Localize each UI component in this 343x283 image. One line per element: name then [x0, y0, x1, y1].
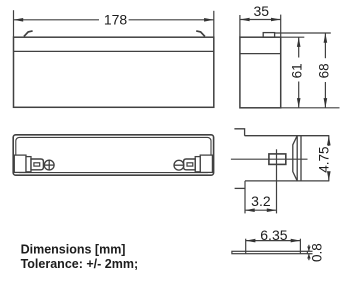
extension line from side body top: [281, 36, 305, 38]
right tab slot: [187, 163, 193, 166]
extension line from side body bottom: [281, 107, 340, 109]
dim 6.35 extension line right: [299, 239, 301, 254]
right terminal housing: [200, 155, 212, 172]
positive symbol cross: [44, 164, 55, 166]
side view lid seam: [240, 53, 281, 55]
terminal detail center axis: [231, 158, 308, 160]
dim 0.8 arrows: [308, 245, 310, 252]
terminal detail bottom-left step: [235, 187, 245, 189]
svg-text:61: 61: [290, 63, 305, 78]
front view right terminal hook: [196, 31, 205, 37]
faston tab front view bar: [232, 251, 308, 253]
terminal detail top-left step: [234, 129, 244, 136]
dim 0.8 extension stubs: [307, 250, 312, 252]
positive terminal circle: [44, 160, 54, 170]
left terminal flange: [26, 157, 31, 172]
battery front view body: [14, 37, 214, 107]
left faston tab: [31, 159, 43, 170]
dim 35 extension line left: [239, 15, 241, 37]
terminal detail lid bottom line: [245, 180, 329, 182]
svg-text:6.35: 6.35: [260, 227, 287, 243]
dim 3.2 dimension line: [245, 209, 277, 211]
svg-text:68: 68: [317, 63, 332, 78]
dim 35 dimension line: [240, 19, 281, 21]
svg-text:35: 35: [254, 3, 270, 19]
svg-text:Dimensions [mm]: Dimensions [mm]: [21, 243, 126, 257]
left terminal housing: [14, 155, 26, 172]
battery top view outer outline: [13, 135, 213, 175]
terminal base chevron: [293, 136, 297, 181]
svg-text:178: 178: [104, 12, 128, 28]
extension line from terminal bump top: [275, 32, 331, 34]
dim 6.35 extension line left: [245, 239, 247, 254]
dim 61 dimension line: [298, 37, 300, 57]
dim 4.75 dimension line: [328, 136, 330, 146]
extension line through hole: [276, 149, 278, 213]
battery top view inner outline: [16, 137, 211, 172]
dim 178 extension line right: [213, 11, 215, 37]
svg-text:3.2: 3.2: [251, 193, 271, 209]
front view left terminal hook: [24, 31, 33, 37]
terminal hole rectangle: [269, 154, 286, 165]
battery front view lid seam: [14, 50, 214, 52]
dim 178 extension line left: [13, 10, 15, 37]
right faston tab: [184, 159, 196, 170]
negative terminal circle: [174, 160, 184, 170]
right terminal flange: [195, 157, 200, 172]
dim 35 extension line right: [280, 15, 282, 38]
faston tab blade edges: [296, 136, 298, 181]
side view terminal bump: [263, 33, 274, 38]
svg-text:4.75: 4.75: [316, 146, 331, 172]
svg-text:0.8: 0.8: [310, 243, 325, 262]
dim 6.35 dimension line: [246, 240, 301, 242]
terminal detail lid top line: [245, 135, 330, 137]
negative symbol minus: [174, 164, 185, 166]
dim 68 dimension line: [324, 33, 326, 58]
dim 178 dimension line: [14, 19, 100, 21]
battery side view body: [240, 37, 281, 108]
svg-text:Tolerance: +/- 2mm;: Tolerance: +/- 2mm;: [21, 257, 139, 271]
left tab slot: [34, 163, 40, 166]
